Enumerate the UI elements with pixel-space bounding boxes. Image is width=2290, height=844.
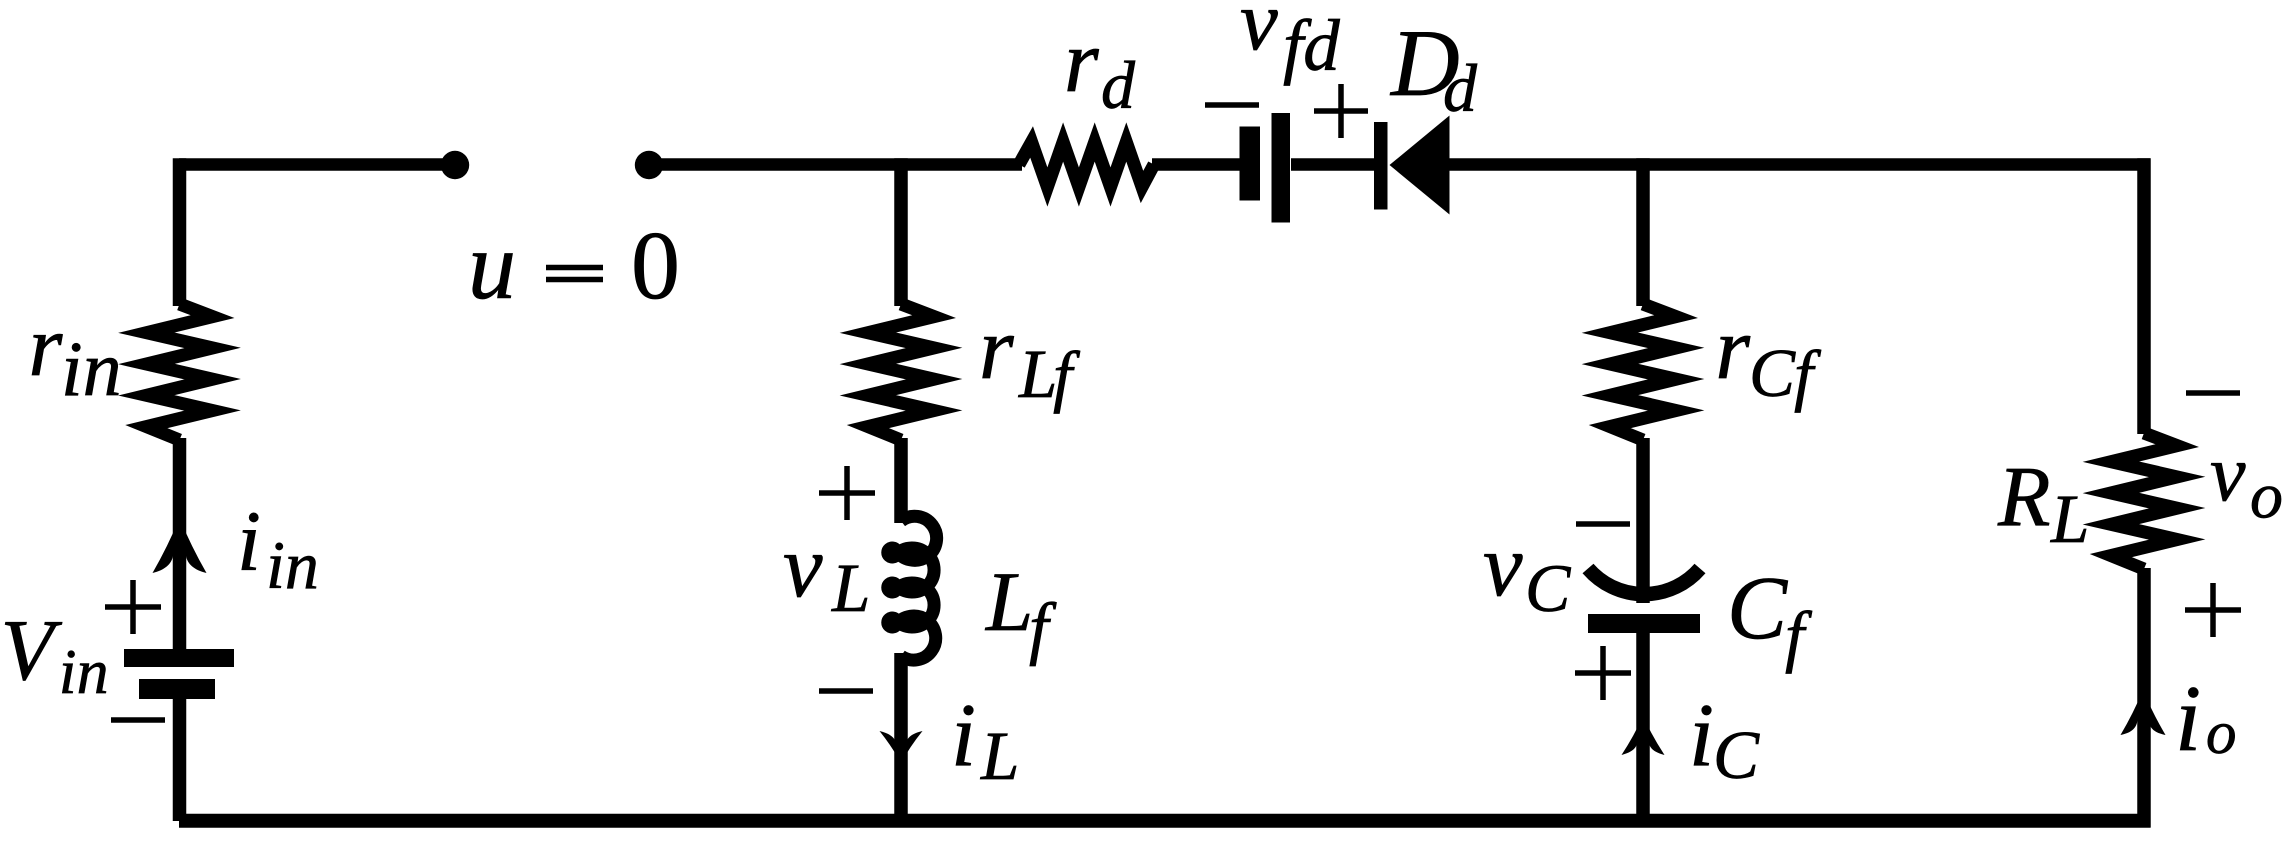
svg-text:R: R	[1997, 448, 2051, 544]
svg-text:L: L	[831, 550, 870, 626]
svg-text:in: in	[59, 636, 109, 707]
svg-text:0: 0	[631, 212, 680, 320]
svg-text:in: in	[61, 325, 122, 412]
svg-text:r: r	[979, 300, 1014, 398]
svg-text:v: v	[1240, 0, 1278, 68]
svg-text:i: i	[1689, 686, 1714, 785]
svg-text:L: L	[985, 555, 1033, 649]
svg-text:V: V	[1, 601, 63, 698]
svg-text:i: i	[237, 493, 261, 589]
svg-text:o: o	[2206, 700, 2237, 767]
svg-text:v: v	[1483, 517, 1523, 615]
svg-text:v: v	[783, 518, 823, 616]
svg-text:r: r	[29, 297, 64, 394]
svg-text:f: f	[1794, 337, 1822, 413]
svg-text:L: L	[1018, 336, 1057, 412]
svg-text:d: d	[1101, 47, 1136, 123]
svg-text:fd: fd	[1283, 5, 1340, 86]
svg-text:f: f	[1029, 590, 1057, 667]
svg-text:u: u	[468, 212, 516, 319]
svg-text:C: C	[1713, 717, 1760, 793]
svg-text:C: C	[1727, 559, 1788, 658]
svg-text:v: v	[2210, 430, 2246, 518]
svg-text:i: i	[951, 686, 976, 785]
svg-text:L: L	[2050, 481, 2089, 557]
svg-text:C: C	[1749, 335, 1796, 411]
svg-text:r: r	[1064, 13, 1099, 111]
svg-text:in: in	[266, 527, 319, 603]
svg-text:o: o	[2250, 460, 2283, 533]
svg-text:C: C	[1525, 550, 1571, 626]
svg-text:L: L	[980, 718, 1019, 794]
svg-text:f: f	[1053, 338, 1081, 414]
svg-text:f: f	[1785, 598, 1813, 674]
svg-text:i: i	[2175, 667, 2201, 771]
svg-text:d: d	[1443, 50, 1478, 126]
svg-text:r: r	[1715, 300, 1750, 398]
